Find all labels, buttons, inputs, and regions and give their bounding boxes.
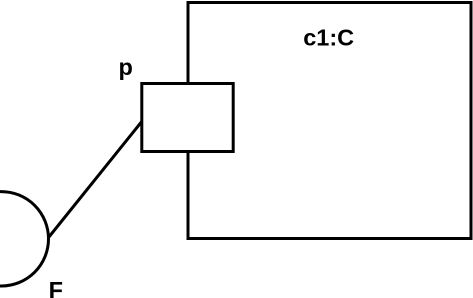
- component c1:C (outer rectangle): [188, 3, 471, 239]
- port p (square on component boundary): [142, 84, 233, 152]
- svg-text:c1:C: c1:C: [303, 25, 354, 51]
- interface ball F (provided interface circle): [0, 192, 49, 286]
- svg-text:p: p: [119, 54, 133, 80]
- wire (connector from port p to interface ball F): [49, 122, 142, 238]
- svg-text:F: F: [49, 277, 63, 298]
